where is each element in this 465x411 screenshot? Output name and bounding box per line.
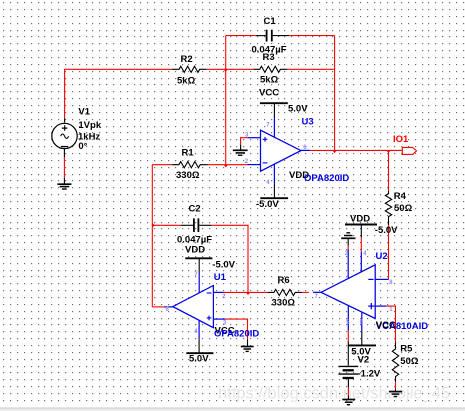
svg-text:5.0V: 5.0V	[189, 354, 209, 365]
wire V1 top vertical	[64, 69, 66, 122]
svg-text:R6: R6	[278, 275, 290, 286]
VDD supply symbol for U2	[345, 224, 377, 226]
svg-text:U1: U1	[214, 272, 227, 283]
wire C1 branch right	[289, 35, 335, 37]
label R2	[177, 54, 196, 87]
svg-text:-5.0V: -5.0V	[375, 225, 398, 236]
svg-text:VDD: VDD	[185, 245, 205, 256]
svg-text:330Ω: 330Ω	[272, 298, 296, 309]
svg-text:U2: U2	[376, 251, 388, 262]
label VDD U3 / OPA820ID	[256, 170, 349, 210]
svg-text:5kΩ: 5kΩ	[260, 74, 279, 85]
U1 pin numbers	[166, 272, 228, 335]
svg-text:R4: R4	[394, 191, 407, 202]
wire C1 branch left	[226, 35, 256, 37]
ground G1 (below V1)	[57, 184, 71, 189]
label R4	[394, 191, 413, 214]
ground G3 (U1 plus input)	[241, 347, 254, 352]
junction node A (R2/R3/C1/vertical)	[224, 69, 228, 72]
label C1	[252, 16, 287, 56]
svg-text:5kΩ: 5kΩ	[177, 75, 196, 86]
battery V2	[338, 366, 358, 378]
VCC supply symbol for U3	[260, 103, 288, 117]
label R3	[260, 52, 279, 86]
svg-text:-5.0V: -5.0V	[212, 259, 235, 270]
svg-text:1Vpk: 1Vpk	[78, 120, 101, 131]
svg-text:https://blog.csdn.net/shaojie_: https://blog.csdn.net/shaojie_45	[218, 385, 450, 403]
label R1	[176, 148, 200, 182]
svg-text:-1.2V: -1.2V	[358, 369, 381, 380]
svg-text:-5.0V: -5.0V	[256, 199, 279, 210]
label VCC U2 / VCA810AID	[376, 320, 428, 332]
wire R6 to U2 output stub	[302, 291, 309, 293]
svg-text:OPA820ID: OPA820ID	[214, 328, 259, 339]
svg-text:C1: C1	[264, 16, 277, 27]
label 5.0V U1 bottom	[189, 354, 209, 365]
label VCC U1 / OPA820ID	[214, 326, 259, 340]
svg-text:5.0V: 5.0V	[288, 103, 308, 114]
wire U1 output to left loop	[152, 306, 164, 308]
capacitor C1	[256, 30, 289, 42]
svg-text:VCC: VCC	[376, 320, 396, 331]
watermark	[218, 385, 450, 403]
label R6	[272, 275, 296, 308]
wire U2 top-left pin to flipped ground G4	[347, 239, 349, 250]
wire U2 bottom-right pin to 5.0V supply	[361, 332, 363, 345]
svg-text:50Ω: 50Ω	[400, 356, 419, 367]
bottom scrollbar strip	[0, 408, 465, 411]
label U2	[376, 251, 388, 262]
label IO1	[393, 134, 409, 145]
op-amp U2 (VCA mirrored)	[313, 250, 389, 333]
label V2	[358, 355, 381, 380]
label C2	[177, 204, 212, 246]
junction R6 rail / C2 branch	[246, 292, 250, 295]
wire R3 to right feedback corner	[287, 68, 335, 70]
wire R1 corner to U3 minus rail	[152, 164, 172, 166]
svg-text:C2: C2	[189, 204, 201, 215]
ground G4 flipped (above U2)	[341, 233, 355, 239]
svg-text:0°: 0°	[78, 141, 87, 152]
5.0V supply symbol for U1 (bottom)	[186, 339, 213, 353]
wire R1 to node B and to U3 minus stub	[208, 164, 248, 166]
wire battery V2 to ground G5	[347, 379, 349, 399]
VDD supply symbol for U3 (bottom)	[260, 183, 288, 198]
svg-text:IO1: IO1	[393, 134, 409, 145]
svg-text:R2: R2	[181, 54, 193, 65]
label U1	[214, 272, 227, 283]
op-amp U3	[248, 117, 310, 183]
resistor R3	[254, 66, 288, 72]
wire C2 branch left	[152, 224, 180, 226]
wire U2 bottom-left pin to battery V2	[347, 330, 349, 365]
junction C2 tap	[152, 223, 155, 227]
U2 pin numbers	[315, 251, 394, 326]
wire C2 branch right with corner down to R6 rail	[212, 225, 248, 292]
wire U1 minus to R6	[223, 291, 268, 293]
resistor R5	[392, 343, 398, 382]
svg-text:V2: V2	[358, 355, 370, 366]
resistor R6	[268, 289, 302, 295]
wire top rail left (V1 to R2)	[64, 68, 172, 70]
wire left loop vertical (R1 corner down to U1 output)	[151, 165, 153, 307]
wire right feedback vertical	[334, 36, 336, 151]
wire R4 to U2 minus	[388, 225, 390, 279]
svg-text:R3: R3	[263, 52, 275, 63]
IO1 connector	[402, 147, 416, 154]
wire V1 bottom to ground	[63, 149, 65, 184]
wire U2 plus to R5	[386, 306, 396, 343]
svg-text:R1: R1	[182, 148, 195, 159]
svg-text:VDD: VDD	[350, 214, 370, 225]
junction output/R4	[386, 150, 390, 153]
wire U3 output rail	[310, 149, 403, 151]
svg-text:OPA820ID: OPA820ID	[304, 173, 349, 184]
svg-text:V1: V1	[78, 106, 90, 117]
label V1	[78, 106, 102, 152]
resistor R2	[172, 66, 206, 72]
wire U1 plus to ground G3	[225, 319, 247, 346]
5.0V supply symbol for U2 (bottom)	[349, 344, 377, 346]
wire R2 to node A	[207, 68, 226, 70]
svg-text:VCC: VCC	[259, 87, 279, 98]
ground G5 (below V2)	[342, 400, 355, 405]
resistor R1	[172, 162, 208, 168]
ground G6 (below R5)	[389, 392, 402, 397]
op-amp U1 (mirrored)	[165, 273, 226, 339]
wire U3 plus input to ground G2	[241, 137, 248, 150]
label VDD U2	[350, 214, 398, 237]
junction feedback/output	[333, 150, 337, 153]
wire left feedback vertical (node A down to minus rail)	[225, 36, 227, 165]
label 5.0V V2 supply	[351, 346, 371, 357]
ground G2 (U3 plus input)	[233, 150, 248, 155]
junction node B (R1/U3 minus)	[224, 165, 228, 168]
svg-text:U3: U3	[302, 117, 314, 128]
source V1	[52, 123, 77, 148]
U3 pin numbers	[245, 123, 307, 186]
capacitor C2	[181, 218, 212, 232]
wire R4 tap vertical	[388, 150, 390, 191]
label VCC U3	[259, 87, 308, 114]
svg-text:R5: R5	[400, 343, 413, 354]
wire node A to R3	[226, 68, 254, 70]
svg-text:50Ω: 50Ω	[394, 203, 413, 214]
svg-text:330Ω: 330Ω	[176, 170, 200, 181]
label U3	[302, 117, 314, 128]
VDD supply symbol for U1 (top)	[185, 258, 212, 273]
wire U2 top-right pin to VDD	[360, 224, 362, 252]
wire R5 to ground G6	[395, 382, 397, 391]
resistor R4	[385, 191, 391, 225]
label VDD U1	[185, 245, 236, 271]
label R5	[400, 343, 419, 366]
